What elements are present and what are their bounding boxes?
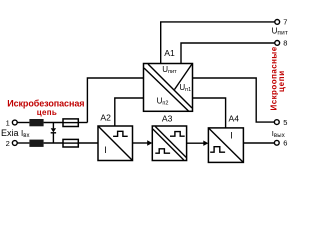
svg-text:5: 5: [283, 118, 287, 127]
terminal 5: [274, 120, 279, 125]
wire: resistor R1 to fuse F1: [44, 122, 63, 124]
arrowhead into A4: [203, 141, 208, 146]
svg-text:цепи: цепи: [277, 70, 286, 92]
svg-text:8: 8: [283, 39, 287, 48]
A1 isolation diagonal upper: [148, 64, 192, 108]
A4 diagonal: [209, 128, 243, 162]
protection diode VD1: [51, 123, 56, 144]
A2 pulse symbol: [113, 131, 128, 136]
A1 isolation diagonal lower: [144, 68, 189, 111]
block A3 box: [152, 126, 186, 161]
wire: fuse F2 to A2 input: [78, 142, 98, 144]
svg-text:1: 1: [6, 118, 10, 127]
A3 isolation diagonal upper: [155, 127, 186, 158]
wire: A4 output to terminal 6: [244, 142, 275, 144]
svg-text:Искробезопасная: Искробезопасная: [7, 98, 84, 108]
terminal 2: [12, 141, 17, 146]
wire: A2 output to A3 with arrow: [133, 142, 148, 144]
resistor R1 (filled): [29, 119, 43, 126]
block A4 box: [208, 128, 243, 162]
wire: resistor R2 to fuse F2: [44, 142, 63, 144]
wire: terminal 7 to A1 top: [161, 22, 275, 64]
svg-text:I: I: [104, 145, 107, 155]
label: Искроопасные цепи (vertical red): [269, 46, 286, 110]
A3 pulse symbol bottom: [155, 149, 170, 153]
terminal 1: [12, 120, 17, 125]
wire: A1 Uп1 to terminal 5: [193, 78, 275, 122]
svg-text:2: 2: [6, 139, 10, 148]
wire: A1 Uп2 to A2 top: [115, 98, 144, 126]
A3 isolation diagonal lower: [153, 129, 184, 160]
block A2 box: [98, 126, 133, 161]
wire: A3 output to A4 with arrow: [187, 142, 204, 144]
svg-text:6: 6: [283, 139, 287, 148]
svg-text:A3: A3: [162, 113, 173, 123]
svg-text:7: 7: [283, 17, 287, 26]
arrowhead into A3: [147, 140, 152, 145]
terminal 6: [274, 140, 279, 145]
terminal 8: [275, 41, 280, 46]
A4 pulse symbol: [210, 147, 225, 153]
wire: fuse F1 to riser: [78, 122, 87, 124]
wire: terminal 2 to resistor R2: [17, 142, 29, 144]
resistor R2 (filled): [29, 140, 43, 147]
label: Искробезопасная цепь (red): [7, 98, 84, 117]
A3 pulse symbol top: [170, 132, 185, 137]
svg-text:A2: A2: [100, 113, 111, 123]
wire: A1 Uп1 to A4 top: [193, 98, 226, 128]
block A1 box: [144, 64, 193, 112]
svg-text:I: I: [230, 131, 233, 141]
terminal 7: [275, 20, 280, 25]
svg-text:цепь: цепь: [37, 108, 57, 117]
fuse F1: [63, 119, 78, 127]
A1 corner diagonal (Uп1 wedge): [175, 64, 193, 90]
wire: terminal 1 to resistor R1: [17, 122, 29, 124]
wire: terminal 8 to A1 top: [181, 43, 275, 64]
wire: A1 left to loop riser: [87, 78, 143, 123]
A2 diagonal: [99, 127, 133, 161]
svg-text:A1: A1: [164, 48, 175, 58]
svg-text:A4: A4: [229, 113, 240, 123]
fuse F2: [63, 139, 78, 147]
